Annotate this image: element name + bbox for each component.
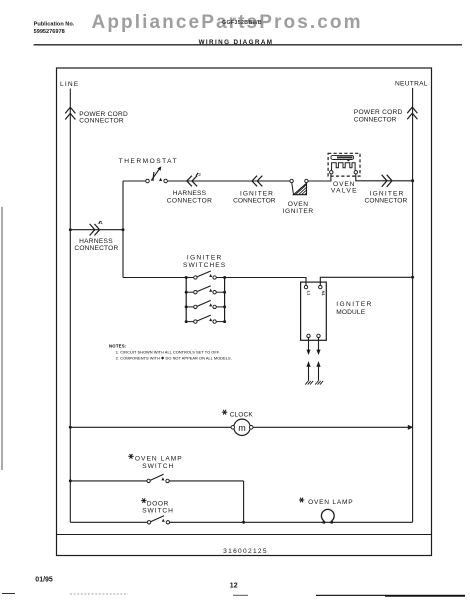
label igniter module — [336, 301, 373, 316]
label igniter switches — [183, 254, 226, 269]
wire drop from thermostat corner — [122, 181, 124, 278]
wire lamp switch branch down — [243, 481, 245, 522]
svg-text:2. COMPONENTS WITH ✱ DO NOT AP: 2. COMPONENTS WITH ✱ DO NOT APPEAR ON AL… — [116, 356, 232, 361]
junction neutral x module wire — [411, 276, 414, 279]
junction line rail x harness run — [69, 228, 72, 231]
label door switch — [141, 498, 174, 514]
label harness connector 1 — [74, 238, 118, 252]
power cord connector (neutral side) — [407, 107, 417, 119]
clock — [231, 419, 253, 435]
oven lamp switch — [147, 474, 169, 482]
ground (chassis) hatching — [305, 381, 323, 385]
svg-text:12: 12 — [230, 583, 238, 590]
svg-text:CONNECTOR: CONNECTOR — [354, 117, 397, 124]
svg-text:NEUTRAL: NEUTRAL — [395, 81, 428, 88]
label oven lamp switch — [128, 454, 182, 470]
svg-text:OVEN LAMP: OVEN LAMP — [308, 499, 353, 506]
wire oven igniter to oven valve — [308, 174, 331, 181]
label oven valve — [331, 181, 358, 195]
scan artifact left edge — [1, 207, 3, 470]
svg-text:MODULE: MODULE — [336, 309, 365, 316]
harness connector 2 — [187, 172, 202, 186]
wire harness run line rail to drop — [70, 229, 123, 231]
oven valve — [328, 153, 360, 176]
svg-text:HARNESS: HARNESS — [79, 238, 113, 245]
svg-text:OVEN LAMP: OVEN LAMP — [135, 456, 183, 463]
svg-text:HARNESS: HARNESS — [173, 190, 207, 197]
wire drop to igniter switches — [123, 277, 186, 279]
junction line rail x lamp switch run — [69, 479, 72, 482]
label igniter connector (left) — [233, 191, 276, 205]
svg-text:SWITCH: SWITCH — [142, 508, 174, 515]
power cord connector (line side) — [65, 107, 75, 119]
svg-text:IGNITER: IGNITER — [187, 254, 223, 261]
svg-text:316002125: 316002125 — [223, 548, 268, 555]
svg-text:SWITCH: SWITCH — [142, 463, 174, 470]
svg-text:CLOCK: CLOCK — [230, 412, 254, 419]
svg-text:01/95: 01/95 — [35, 576, 53, 583]
svg-text:VALVE: VALVE — [331, 188, 358, 195]
svg-text:DOOR: DOOR — [147, 500, 169, 507]
igniter switches right rail — [224, 278, 226, 322]
svg-text:SWITCHES: SWITCHES — [183, 262, 226, 269]
label oven lamp — [299, 498, 354, 506]
svg-text:CONNECTOR: CONNECTOR — [167, 198, 212, 205]
svg-text:5995276978: 5995276978 — [34, 29, 65, 35]
wire igniter module to neutral rail — [320, 277, 412, 285]
svg-text:WIRING DIAGRAM: WIRING DIAGRAM — [199, 39, 274, 46]
wire clock run — [70, 426, 233, 428]
junction neutral x top wire — [411, 179, 414, 182]
wire oven valve to neutral rail — [356, 174, 413, 180]
svg-text:CONNECTOR: CONNECTOR — [79, 118, 124, 125]
wire thermostat to oven igniter — [168, 180, 290, 182]
spark electrode leads (down arrows) — [306, 338, 320, 355]
diagram frame — [57, 68, 432, 556]
igniter switches left rail — [185, 278, 187, 322]
svg-text:CONNECTOR: CONNECTOR — [233, 198, 276, 205]
junction branch x door run — [242, 521, 245, 524]
svg-text:IGNITER: IGNITER — [283, 208, 314, 215]
junction neutral rail x clock run — [408, 425, 413, 430]
spark gap burner arrows (up arrows) — [306, 361, 320, 381]
label igniter connector (right) — [365, 191, 408, 205]
svg-text:NOTES:: NOTES: — [109, 343, 127, 348]
wire LINE rail — [69, 89, 71, 523]
header publication number — [34, 21, 75, 34]
label power cord connector (line side) — [79, 111, 128, 125]
igniter switch SW1 — [186, 271, 224, 279]
oven lamp — [321, 509, 334, 523]
svg-text:CONNECTOR: CONNECTOR — [74, 245, 118, 252]
igniter connector (right) — [382, 175, 392, 187]
svg-text:m: m — [238, 423, 246, 433]
wire door switch run — [70, 521, 147, 523]
svg-text:1. CIRCUIT SHOWN WITH ALL CONT: 1. CIRCUIT SHOWN WITH ALL CONTROLS SET T… — [116, 350, 220, 355]
wire NEUTRAL rail — [412, 88, 414, 522]
door switch — [147, 516, 169, 524]
svg-text:IGNITER: IGNITER — [240, 191, 274, 198]
thermostat — [146, 166, 168, 183]
label clock — [222, 410, 253, 419]
label oven igniter — [283, 201, 314, 215]
igniter switch SW2 — [186, 286, 224, 294]
svg-text:IGNITER: IGNITER — [370, 191, 405, 198]
svg-text:1: 1 — [100, 220, 103, 226]
scan artifacts bottom — [2, 594, 465, 596]
frame footer separator — [57, 534, 432, 536]
header rule — [34, 44, 462, 46]
svg-text:N1: N1 — [321, 291, 326, 297]
junction line rail x clock run — [69, 426, 72, 429]
wire oven lamp switch run — [70, 480, 146, 482]
igniter switch SW4 — [186, 315, 224, 323]
igniter connector (left) — [252, 176, 262, 187]
harness connector 1 — [90, 220, 104, 235]
wire switches to igniter module — [225, 278, 306, 286]
svg-text:CONNECTOR: CONNECTOR — [365, 198, 408, 205]
svg-text:Publication No.: Publication No. — [34, 21, 75, 27]
svg-text:L1: L1 — [307, 291, 312, 296]
label power cord connector (neutral side) — [354, 109, 403, 124]
igniter module — [301, 282, 327, 340]
svg-text:LINE: LINE — [60, 81, 79, 88]
svg-text:GGF352BBWB: GGF352BBWB — [222, 20, 262, 26]
igniter switch SW3 — [186, 300, 224, 308]
notes — [109, 343, 232, 360]
svg-text:POWER CORD: POWER CORD — [354, 109, 403, 116]
oven igniter — [290, 179, 308, 194]
junction dots igniter switch rails — [185, 276, 226, 323]
label harness connector 2 — [167, 190, 212, 205]
svg-text:THERMOSTAT: THERMOSTAT — [119, 158, 178, 165]
svg-text:IGNITER: IGNITER — [336, 301, 373, 308]
wire top run: corner to thermostat — [123, 180, 145, 182]
junction drop x harness run — [122, 228, 125, 231]
svg-text:2: 2 — [198, 172, 201, 178]
